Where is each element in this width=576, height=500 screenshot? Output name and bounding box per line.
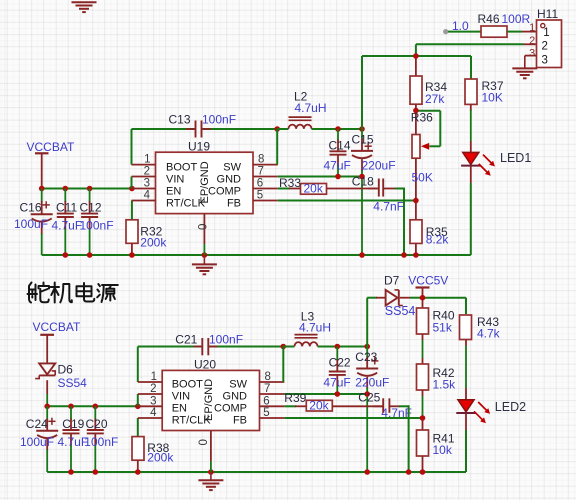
svg-text:20k: 20k bbox=[304, 181, 324, 195]
svg-text:U20: U20 bbox=[194, 358, 216, 372]
svg-text:10K: 10K bbox=[482, 91, 503, 105]
wire pin4 RT/CLK down to R38 bbox=[137, 418, 139, 437]
junction C14 tap on VOUT bbox=[335, 126, 341, 132]
wire R33 to C18 bbox=[327, 188, 378, 190]
IC U19 bbox=[156, 152, 254, 213]
svg-text:C16: C16 bbox=[20, 201, 42, 215]
svg-text:C23: C23 bbox=[355, 350, 377, 364]
wire U20 pin0 to GND rail2 bbox=[210, 461, 212, 472]
junction C20 on GND rail2 bbox=[93, 469, 99, 475]
svg-text:EN: EN bbox=[166, 185, 181, 197]
wire SW pin8 to L3 node bbox=[282, 347, 284, 383]
inductor L2 4.7uH bbox=[277, 128, 288, 130]
junction SW node at L2 input bbox=[274, 126, 280, 132]
wire C25 to GND rail bbox=[389, 405, 400, 407]
svg-text:LED1: LED1 bbox=[500, 151, 531, 165]
capacitor C23 220uF bbox=[366, 347, 368, 358]
resistor R34 27k bbox=[415, 56, 417, 76]
wire R37 to LED1 bbox=[470, 104, 472, 111]
diode D7 SS54 bbox=[386, 290, 398, 306]
svg-text:R33: R33 bbox=[279, 176, 301, 190]
capacitor C11 4.7uF bbox=[64, 189, 66, 203]
svg-text:27k: 27k bbox=[425, 92, 445, 106]
wire C21/BOOT net (bottom) bbox=[138, 346, 202, 348]
wire VOUT riser to top node bbox=[361, 56, 363, 129]
wire top node to H11 pin2 bbox=[415, 44, 417, 56]
svg-text:C15: C15 bbox=[352, 133, 374, 147]
junction C15 to GND wire bbox=[359, 174, 365, 180]
junction C22 to GND wire bbox=[335, 391, 341, 397]
capacitor C12 100nF bbox=[89, 189, 91, 203]
wire R40 to R42 bbox=[422, 334, 424, 340]
svg-text:COMP: COMP bbox=[214, 403, 247, 415]
svg-text:2: 2 bbox=[150, 383, 156, 395]
junction U20 pin0 on GND rail2 bbox=[208, 469, 214, 475]
svg-text:3: 3 bbox=[529, 48, 535, 60]
svg-text:VCCBAT: VCCBAT bbox=[33, 320, 81, 334]
resistor R35 8.2k bbox=[415, 201, 417, 220]
svg-text:100uF: 100uF bbox=[20, 435, 54, 449]
wire net1.0 to R46 bbox=[448, 31, 481, 33]
junction R34/R36 node bbox=[413, 108, 419, 114]
junction R35 on GND rail bbox=[413, 252, 419, 258]
resistor R39 20k bbox=[306, 400, 332, 411]
capacitor C19 4.7uF bbox=[70, 406, 72, 419]
capacitor C20 100nF bbox=[94, 406, 96, 419]
capacitor C15 220uF bbox=[361, 129, 363, 140]
svg-text:D7: D7 bbox=[384, 273, 400, 287]
wire pin2-pin3 link (U19 left) bbox=[131, 177, 133, 189]
wire R39 to C25 bbox=[332, 405, 382, 407]
svg-text:7: 7 bbox=[258, 166, 264, 178]
junction R38 on GND rail2 bbox=[135, 469, 141, 475]
resistor R38 200k bbox=[132, 437, 144, 461]
junction C19 on VIN rail bbox=[68, 404, 74, 410]
wire top node to R37 bbox=[470, 56, 472, 79]
wire top output node bbox=[362, 55, 471, 57]
svg-text:4: 4 bbox=[144, 190, 151, 202]
potentiometer R36 50K bbox=[415, 111, 417, 135]
svg-text:R39: R39 bbox=[284, 391, 306, 405]
junction R32 on GND rail bbox=[129, 252, 135, 258]
svg-text:4.7uH: 4.7uH bbox=[299, 321, 331, 335]
inductor L3 4.7uH bbox=[283, 346, 294, 348]
capacitor C24 100uF bbox=[46, 406, 48, 419]
svg-text:2: 2 bbox=[542, 41, 548, 53]
capacitor C25 (plates over label) bbox=[374, 405, 384, 407]
net label 1.0 with unconnected end bbox=[443, 29, 448, 34]
svg-text:C12: C12 bbox=[80, 201, 102, 215]
svg-text:5: 5 bbox=[257, 190, 263, 202]
junction R34 tap at top node bbox=[413, 53, 419, 59]
svg-text:100R: 100R bbox=[502, 12, 531, 26]
svg-text:7: 7 bbox=[264, 383, 270, 395]
wire VIN rail (top) bbox=[42, 188, 133, 190]
title text 舵机电源 (servo power) bbox=[28, 283, 118, 303]
junction C23 on GND rail2 bbox=[364, 469, 370, 475]
wire pin1 BOOT to C21 net bbox=[137, 347, 139, 383]
svg-text:C21: C21 bbox=[175, 332, 197, 346]
resistor R40 51k bbox=[422, 298, 424, 308]
junction C15 on GND rail bbox=[359, 252, 365, 258]
svg-text:100uF: 100uF bbox=[14, 217, 48, 231]
junction VCC5V node bbox=[420, 295, 426, 301]
capacitor C13 100nF bbox=[186, 128, 195, 130]
svg-text:47uF: 47uF bbox=[324, 158, 351, 172]
wire VIN rail (bottom) bbox=[47, 405, 139, 407]
svg-text:20k: 20k bbox=[309, 398, 329, 412]
junction C20 on VIN rail bbox=[93, 404, 99, 410]
LED LED2 bbox=[458, 400, 474, 412]
svg-text:220uF: 220uF bbox=[362, 158, 396, 172]
svg-text:LED2: LED2 bbox=[495, 400, 526, 414]
svg-text:6: 6 bbox=[257, 178, 263, 190]
svg-text:1: 1 bbox=[529, 22, 535, 34]
svg-text:200k: 200k bbox=[147, 450, 174, 464]
svg-text:C20: C20 bbox=[86, 417, 108, 431]
svg-text:220uF: 220uF bbox=[355, 375, 389, 389]
junction R41 on GND rail2 bbox=[420, 469, 426, 475]
svg-text:1: 1 bbox=[144, 154, 150, 166]
junction FB node (R36/R35/FB) bbox=[413, 198, 419, 204]
resistor R41 10k bbox=[422, 418, 424, 430]
svg-text:VCCBAT: VCCBAT bbox=[27, 140, 75, 154]
svg-text:EP/GND: EP/GND bbox=[203, 379, 215, 421]
svg-text:4.7k: 4.7k bbox=[477, 327, 501, 341]
capacitor C22 47uF bbox=[336, 347, 338, 361]
wire GND rail (bottom circuit) bbox=[47, 471, 466, 473]
svg-text:100nF: 100nF bbox=[209, 332, 243, 346]
svg-text:FB: FB bbox=[233, 415, 247, 427]
ground (below H11) bbox=[512, 67, 537, 69]
svg-text:EP/GND: EP/GND bbox=[199, 161, 211, 203]
svg-text:C22: C22 bbox=[329, 356, 351, 370]
junction VIN/EN node at U20 bbox=[135, 404, 141, 410]
LED LED1 bbox=[463, 152, 479, 164]
junction C14 to GND wire bbox=[335, 174, 341, 180]
wire GND pin7 (bottom) bbox=[284, 393, 367, 395]
svg-text:4: 4 bbox=[150, 407, 157, 419]
junction C23 to GND wire bbox=[364, 391, 370, 397]
svg-text:C14: C14 bbox=[329, 138, 351, 152]
svg-text:SW: SW bbox=[229, 379, 247, 391]
junction C22 tap on VOUT2 bbox=[335, 344, 341, 350]
junction C18 on GND rail bbox=[401, 252, 407, 258]
svg-text:C19: C19 bbox=[62, 417, 84, 431]
wire U19 pin0 to GND rail bbox=[203, 244, 205, 255]
svg-text:EN: EN bbox=[172, 403, 187, 415]
svg-text:0: 0 bbox=[198, 224, 210, 230]
wire C18 to GND rail bbox=[383, 188, 396, 190]
junction C15/riser tap on VOUT bbox=[359, 126, 365, 132]
resistor R33 20k bbox=[301, 184, 327, 195]
resistor R43 4.7k bbox=[460, 315, 472, 340]
svg-text:GND: GND bbox=[223, 391, 248, 403]
wire R43 to LED2 bbox=[465, 340, 467, 346]
svg-text:1.5k: 1.5k bbox=[433, 378, 457, 392]
svg-text:D6: D6 bbox=[58, 363, 74, 377]
svg-text:FB: FB bbox=[227, 197, 241, 209]
svg-text:6: 6 bbox=[263, 395, 269, 407]
resistor R46 100R bbox=[481, 26, 507, 37]
svg-text:4.7uH: 4.7uH bbox=[295, 101, 327, 115]
diode D6 SS54 bbox=[39, 363, 55, 374]
svg-text:2: 2 bbox=[144, 166, 150, 178]
wire pin4 RT/CLK down to R32 bbox=[131, 201, 133, 220]
junction C25 on GND rail2 bbox=[406, 469, 412, 475]
svg-text:3: 3 bbox=[144, 178, 150, 190]
svg-text:SS54: SS54 bbox=[58, 376, 88, 390]
junction VCCBAT/C16 on VIN rail bbox=[39, 186, 45, 192]
connector H11 bbox=[537, 20, 562, 68]
wire FB pin5 (top) bbox=[278, 200, 416, 202]
svg-text:GND: GND bbox=[217, 173, 242, 185]
junction C19 on GND rail2 bbox=[68, 469, 74, 475]
svg-text:8.2k: 8.2k bbox=[426, 232, 450, 246]
wire C13/BOOT net (top) bbox=[132, 128, 195, 130]
IC U20 bbox=[162, 370, 259, 430]
svg-text:SS54: SS54 bbox=[385, 304, 416, 318]
resistor R42 1.5k bbox=[417, 364, 429, 390]
svg-text:C24: C24 bbox=[26, 417, 48, 431]
wire LED1 cathode to GND rail bbox=[470, 166, 472, 183]
svg-text:100nF: 100nF bbox=[202, 113, 236, 127]
svg-text:200k: 200k bbox=[140, 235, 167, 249]
junction C12 on GND rail bbox=[87, 252, 93, 258]
wire COMP pin6 to R39 bbox=[284, 405, 296, 407]
svg-text:4.7uF: 4.7uF bbox=[52, 218, 83, 232]
capacitor C16 100uF bbox=[41, 189, 43, 203]
wire FB pin5 (bottom) bbox=[284, 417, 422, 419]
wire pin1 BOOT to C13 net bbox=[131, 129, 133, 165]
svg-text:5: 5 bbox=[263, 407, 269, 419]
svg-text:U19: U19 bbox=[188, 140, 210, 154]
svg-text:3: 3 bbox=[150, 395, 156, 407]
svg-text:BOOT: BOOT bbox=[172, 379, 203, 391]
svg-text:C13: C13 bbox=[169, 113, 191, 127]
wire H11 pin2 stub bbox=[524, 43, 537, 45]
junction FB node bottom (R42/R41/FB) bbox=[420, 415, 426, 421]
capacitor C18 4.7nF bbox=[368, 188, 379, 190]
svg-text:C25: C25 bbox=[358, 391, 380, 405]
junction C11 on GND rail bbox=[63, 252, 69, 258]
svg-text:3: 3 bbox=[542, 54, 548, 66]
svg-text:VIN: VIN bbox=[172, 391, 190, 403]
ground (below U20) bbox=[210, 472, 212, 480]
capacitor C14 47uF bbox=[337, 129, 339, 141]
svg-text:8: 8 bbox=[258, 154, 264, 166]
wire R42 to FB node bbox=[422, 390, 424, 396]
svg-text:8: 8 bbox=[265, 371, 271, 383]
junction C23/riser tap on VOUT2 bbox=[364, 344, 370, 350]
wire R46 to H11 pin1 bbox=[507, 31, 522, 33]
svg-text:10k: 10k bbox=[433, 443, 453, 457]
svg-text:VCC5V: VCC5V bbox=[408, 273, 448, 287]
wire GND pin7 (top) bbox=[278, 176, 362, 178]
junction C12 tap on VIN rail bbox=[87, 186, 93, 192]
svg-text:VIN: VIN bbox=[166, 173, 184, 185]
svg-text:BOOT: BOOT bbox=[166, 161, 197, 173]
svg-text:1: 1 bbox=[151, 371, 157, 383]
svg-text:H11: H11 bbox=[537, 7, 558, 21]
wire VOUT2 riser to D7 bbox=[366, 298, 368, 347]
wire D6 to VIN rail (bottom) bbox=[46, 380, 48, 394]
resistor R32 200k bbox=[126, 220, 138, 244]
junction U19 pin0 on GND rail bbox=[202, 252, 208, 258]
svg-text:47uF: 47uF bbox=[323, 375, 350, 389]
wire pin2-pin3 link (U20 left) bbox=[137, 394, 139, 406]
wire VCC5V node to R43 bbox=[423, 297, 467, 299]
junction VIN/EN node at U19 bbox=[129, 186, 135, 192]
svg-text:C11: C11 bbox=[56, 201, 77, 215]
junction D6/C24 on VIN rail bbox=[44, 404, 50, 410]
junction C11 tap on VIN rail bbox=[63, 186, 69, 192]
svg-text:1: 1 bbox=[543, 27, 549, 39]
wire H11 pin3 to ground bbox=[524, 56, 526, 69]
wire COMP pin6 to R33 bbox=[278, 188, 290, 190]
svg-text:100nF: 100nF bbox=[84, 435, 118, 449]
svg-text:100nF: 100nF bbox=[80, 218, 114, 232]
wire LED2 cathode to GND rail bbox=[465, 413, 467, 430]
svg-text:2: 2 bbox=[529, 35, 535, 47]
ground (top-left, partially cut) bbox=[72, 1, 97, 3]
svg-text:COMP: COMP bbox=[208, 185, 241, 197]
svg-text:51k: 51k bbox=[433, 320, 453, 334]
svg-text:4.7nF: 4.7nF bbox=[373, 200, 404, 214]
ground (below U19) bbox=[203, 255, 205, 264]
svg-text:SW: SW bbox=[223, 161, 241, 173]
svg-text:C18: C18 bbox=[352, 174, 374, 188]
capacitor C21 100nF bbox=[194, 346, 202, 348]
resistor R37 10K bbox=[465, 79, 477, 104]
svg-text:0: 0 bbox=[198, 439, 210, 445]
svg-text:50K: 50K bbox=[412, 170, 433, 184]
junction SW node at L3 input bbox=[281, 344, 287, 350]
svg-text:R46: R46 bbox=[478, 12, 500, 26]
wire SW pin8 to L2 node bbox=[276, 129, 278, 165]
wire GND rail (top circuit) bbox=[42, 254, 471, 256]
